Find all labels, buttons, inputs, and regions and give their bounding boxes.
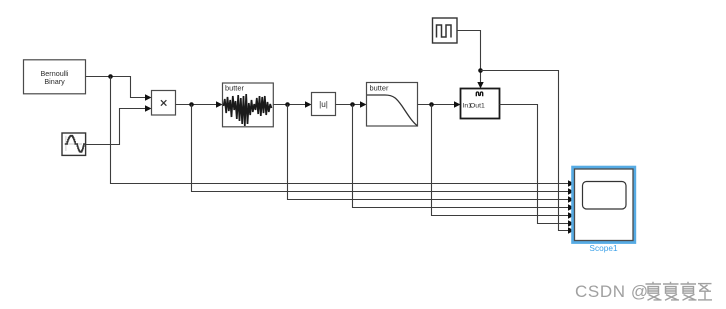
arrowhead Scope input 5 xyxy=(568,212,575,218)
arrowhead Scope input 1 xyxy=(568,180,575,186)
watermark CSDN xyxy=(575,282,712,301)
arrowhead into butter1 xyxy=(216,101,223,107)
arrowhead into enable port (down) xyxy=(477,82,483,89)
arrowhead into Product in2 xyxy=(145,105,152,111)
svg-text:butter: butter xyxy=(370,84,389,93)
wire Enabled Subsystem output to Scope input 6 xyxy=(500,105,571,224)
wire Bernoulli output to Product in1 xyxy=(86,77,148,98)
block U4 butter bandpass filter (noisy icon) xyxy=(223,83,274,127)
node junction at Abs output xyxy=(350,102,355,107)
arrowhead into Abs xyxy=(305,101,312,107)
arrowhead Scope input 7 xyxy=(568,227,575,233)
wire tap5 butter2 to Scope input 5 xyxy=(432,105,571,216)
node junction on pulse wire xyxy=(478,68,483,73)
wire tap4 Abs to Scope input 4 xyxy=(353,105,571,208)
block U6 butter lowpass filter xyxy=(367,83,418,127)
wire Product output to butter1 input xyxy=(176,104,219,106)
arrowhead into butter2 xyxy=(360,101,367,107)
node junction at butter1 output xyxy=(285,102,290,107)
wire butter1 output to Abs input xyxy=(273,104,307,106)
svg-text:Scope1: Scope1 xyxy=(589,243,618,253)
wire butter2 output to Enabled Subsystem input xyxy=(418,104,457,106)
block U1 Bernoulli Binary generator xyxy=(24,60,86,94)
svg-text:CSDN @: CSDN @ xyxy=(575,282,649,301)
glyph xia 2 xyxy=(663,282,679,300)
block U7 Pulse Generator xyxy=(433,18,458,43)
svg-text:Binary: Binary xyxy=(44,77,65,86)
arrowhead Scope input 4 xyxy=(568,204,575,210)
node junction at butter2 output xyxy=(429,102,434,107)
glyph xia 3 xyxy=(681,282,697,300)
arrowhead Scope input 6 xyxy=(568,220,575,226)
arrowhead Scope input 2 xyxy=(568,188,575,194)
svg-text:butter: butter xyxy=(225,84,244,93)
wire Pulse Generator to Enabled Subsystem enable port xyxy=(457,31,481,85)
wire tap7 Pulse to Scope input 7 xyxy=(481,71,571,231)
glyph zhi xyxy=(698,284,712,300)
wire Abs output to butter2 input xyxy=(336,104,363,106)
block U3 Product (multiply) xyxy=(152,91,176,116)
glyph xia 1 xyxy=(646,282,662,300)
wire tap3 butter1 to Scope input 3 xyxy=(288,105,571,200)
block U8 Enabled Subsystem xyxy=(461,89,500,119)
block U5 Abs |u| xyxy=(312,93,336,116)
wire tap2 Product to Scope input 2 xyxy=(192,105,571,192)
arrowhead into Product in1 xyxy=(145,94,152,100)
wire Sine output to Product in2 xyxy=(86,109,147,145)
block U9 Scope1 (selected, blue highlight) xyxy=(571,166,636,253)
arrowhead Scope input 3 xyxy=(568,196,575,202)
svg-text:Out1: Out1 xyxy=(470,102,485,109)
node junction at Bernoulli output xyxy=(108,74,113,79)
node junction at Product output xyxy=(189,102,194,107)
block U2 Sine Wave source xyxy=(62,133,86,155)
svg-text:|u|: |u| xyxy=(319,100,328,109)
arrowhead into Enabled Subsystem xyxy=(454,101,461,107)
wire tap1 Bernoulli to Scope input 1 xyxy=(111,77,571,184)
